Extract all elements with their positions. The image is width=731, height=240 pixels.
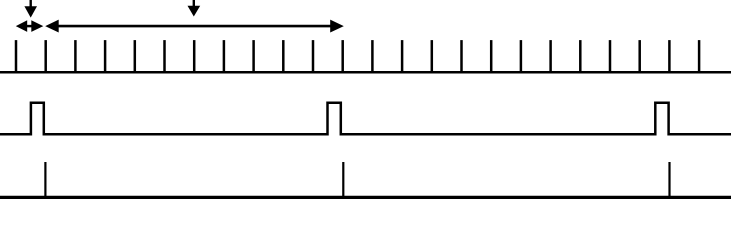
long double-headed arrow (ten clock periods) [45,20,344,33]
clock tick 1 [15,40,18,72]
clock tick 7 [193,40,196,72]
clock tick 16 [460,40,463,72]
clock tick 6 [163,40,166,72]
clock tick 21 [609,40,612,72]
clock tick 15 [431,40,434,72]
clock tick 12 [341,40,344,72]
short double-headed arrow (one clock period) [16,20,44,32]
clock tick 20 [579,40,582,72]
clock tick 19 [549,40,552,72]
clock tick 23 [668,40,671,72]
clock tick 3 [74,40,77,72]
clock axis baseline [0,71,731,74]
clock tick 18 [520,40,523,72]
clock tick 4 [104,40,107,72]
clock tick 22 [638,40,641,72]
clock tick 5 [134,40,137,72]
clock tick 14 [401,40,404,72]
clock tick 9 [252,40,255,72]
down arrow marker at first pulse rising edge [24,0,37,18]
clock tick 2 [44,40,47,72]
clock tick 8 [223,40,226,72]
clock tick 10 [282,40,285,72]
clock tick 24 [698,40,701,72]
down arrow marker at midpoint of long arrow [188,0,201,17]
pulse waveform [0,103,731,135]
bottom axis line [0,196,731,200]
clock tick 11 [312,40,315,72]
clock tick 17 [490,40,493,72]
clock tick 13 [371,40,374,72]
bottom event tick 3 [668,162,670,197]
bottom event tick 1 [44,162,46,197]
bottom event tick 2 [342,162,344,197]
